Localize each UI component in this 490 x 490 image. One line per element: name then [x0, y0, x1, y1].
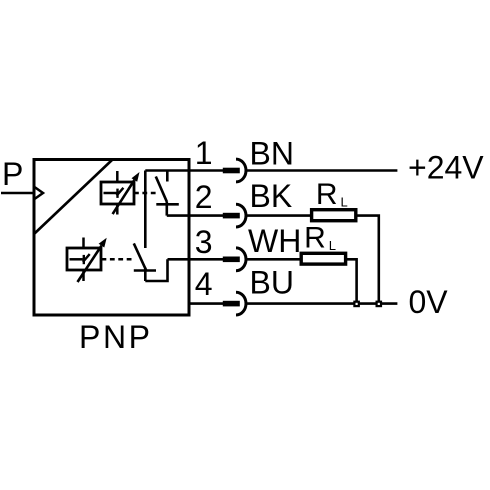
svg-text:+24V: +24V — [408, 150, 484, 186]
svg-text:4: 4 — [195, 266, 213, 302]
switch S1 (upper, output 2) — [156, 171, 179, 216]
junction RL1/0V — [377, 302, 381, 306]
svg-text:BK: BK — [250, 178, 293, 214]
resistor RL1 — [312, 210, 356, 221]
dashed actuator link B1-S1 — [134, 192, 159, 195]
pressure sensor element B2 (lower) — [67, 238, 101, 282]
svg-text:PNP: PNP — [79, 319, 153, 355]
svg-text:R: R — [304, 222, 326, 255]
svg-text:BN: BN — [250, 136, 294, 172]
svg-text:1: 1 — [195, 135, 213, 171]
wire 3 to resistor RL2 — [246, 258, 302, 261]
svg-text:L: L — [329, 238, 336, 253]
pressure sensor element B1 (upper) — [101, 171, 134, 215]
svg-text:0V: 0V — [409, 284, 449, 320]
svg-text:L: L — [341, 194, 348, 209]
dashed actuator link B2-S2 — [102, 258, 136, 261]
svg-text:3: 3 — [195, 224, 213, 260]
wire 4 to 0V — [246, 302, 397, 305]
junction RL2/0V — [354, 302, 358, 306]
svg-text:BU: BU — [250, 265, 294, 301]
wire internal +24V rail — [145, 169, 223, 172]
connector pin 3 — [223, 248, 246, 271]
wire RL1 to 0V rail — [356, 216, 379, 304]
wire S1 to pin 2 — [167, 214, 224, 217]
wire vertical feed to lower switch — [144, 171, 147, 249]
adjustability arrow of B2 — [78, 238, 107, 282]
wire 1 to +24V — [246, 169, 397, 172]
wire P input — [1, 192, 34, 195]
switch S2 (lower, output 3) — [134, 243, 168, 281]
svg-text:P: P — [2, 156, 23, 192]
resistor RL2 — [301, 253, 345, 264]
wire S2 to pin 3 — [168, 258, 224, 261]
wire pin 4 from box — [189, 302, 224, 305]
sensor body box U1 — [34, 160, 189, 316]
diagonal separator line inside box — [34, 160, 112, 234]
P input arrowhead — [35, 187, 44, 199]
svg-text:R: R — [316, 178, 338, 211]
svg-text:WH: WH — [248, 223, 301, 259]
connector pin 1 — [223, 159, 246, 182]
adjustability arrow of B1 — [113, 172, 140, 214]
wire 2 to resistor RL1 — [246, 214, 313, 217]
connector pin 2 — [223, 204, 246, 227]
svg-text:2: 2 — [195, 179, 213, 215]
connector pin 4 — [223, 292, 246, 315]
wire RL2 to 0V rail — [346, 259, 357, 303]
